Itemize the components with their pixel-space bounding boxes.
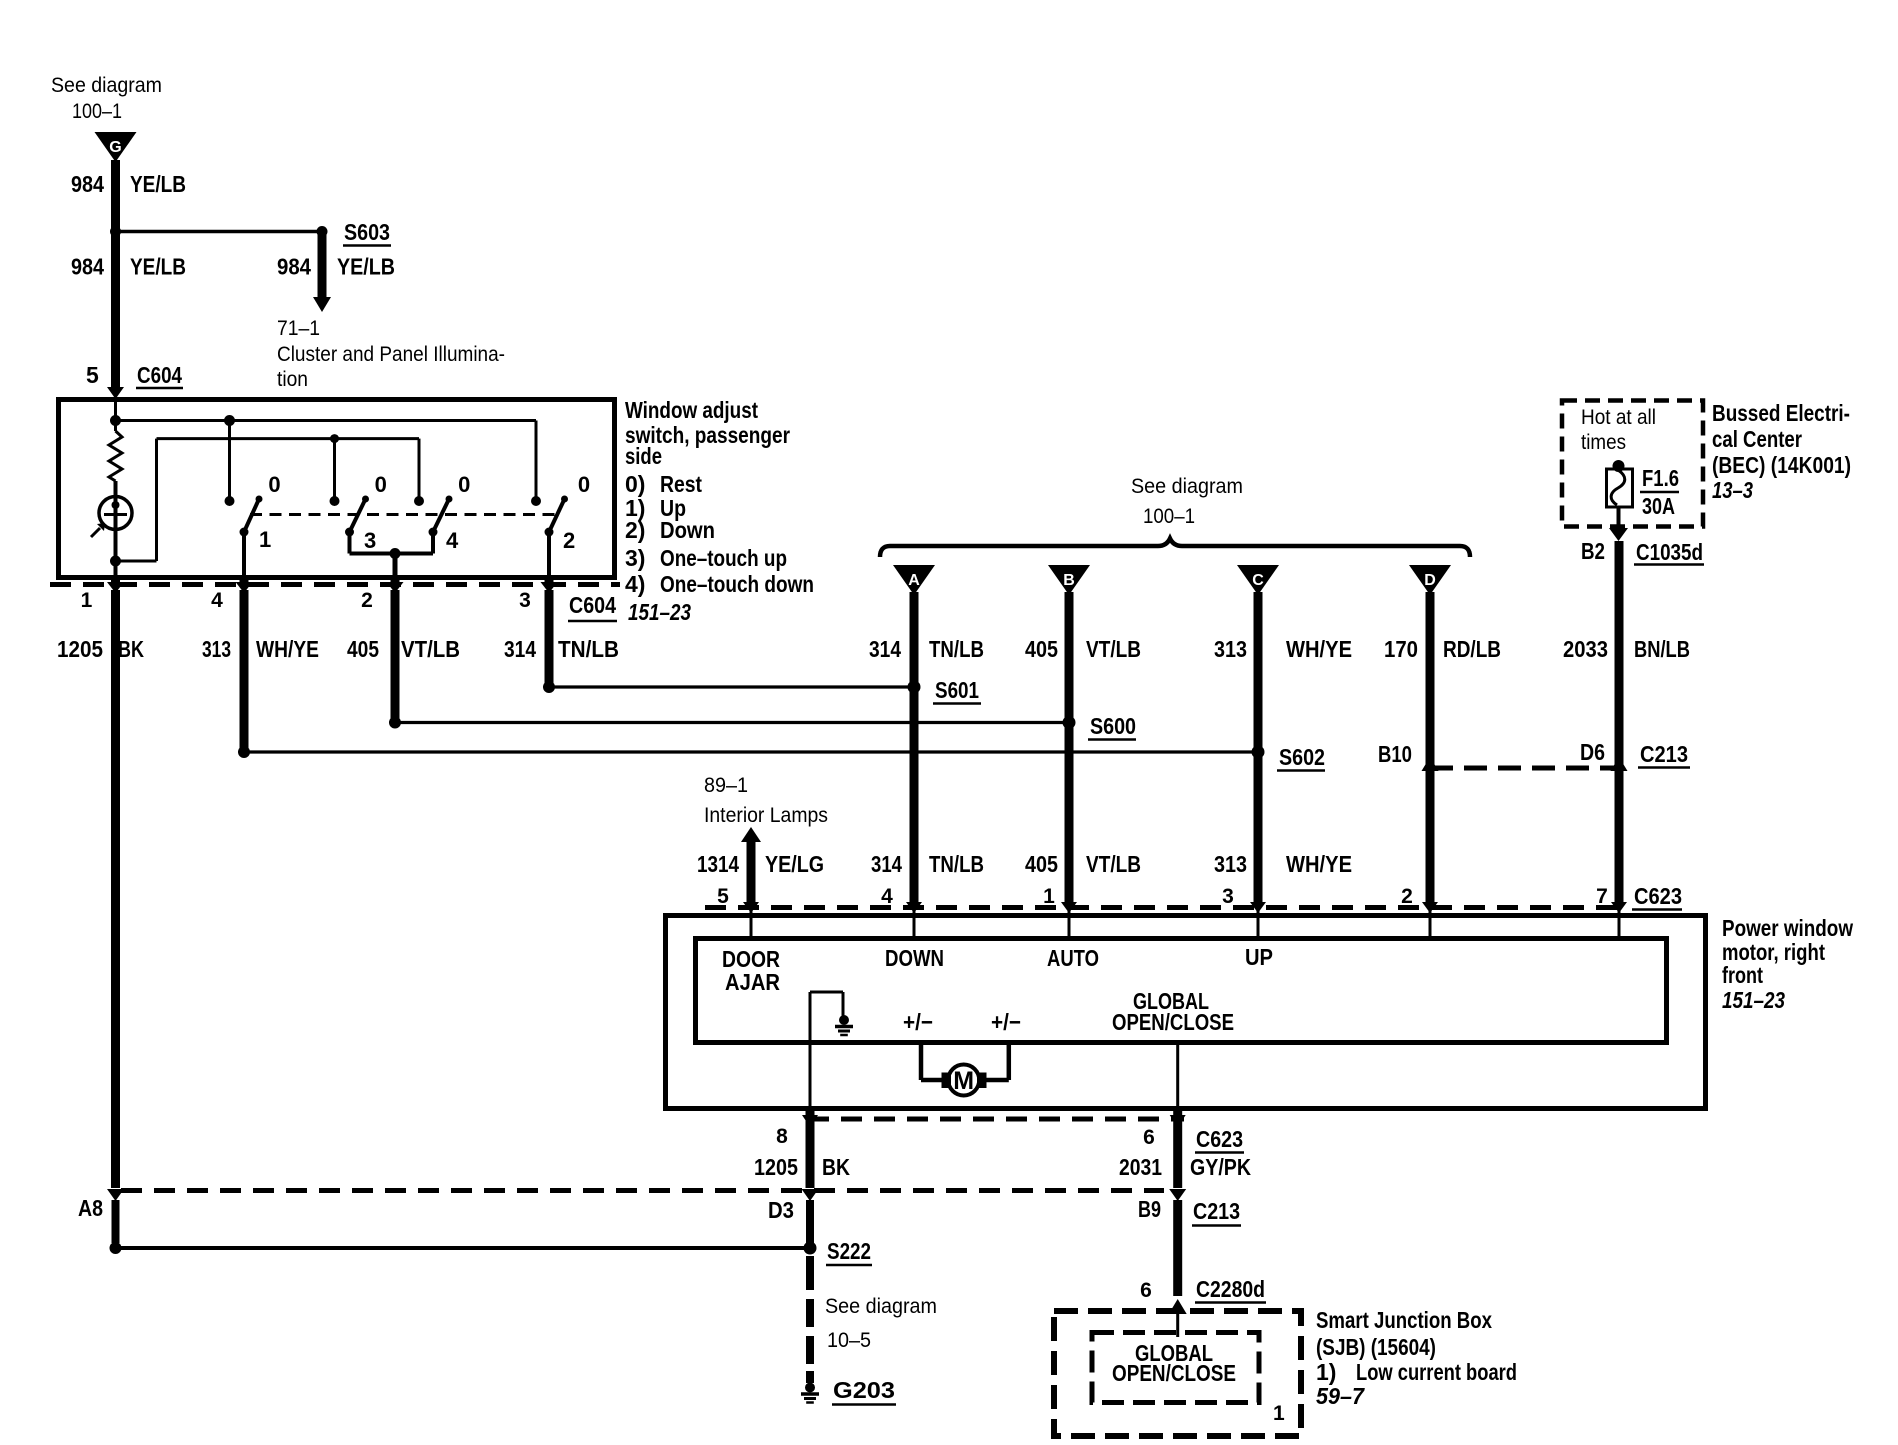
- svg-text:Cluster and Panel Illumina-: Cluster and Panel Illumina-: [277, 343, 505, 366]
- svg-text:GY/PK: GY/PK: [1190, 1154, 1251, 1180]
- svg-text:100–1: 100–1: [72, 100, 122, 123]
- svg-text:VT/LB: VT/LB: [1086, 636, 1141, 662]
- svg-text:OPEN/CLOSE: OPEN/CLOSE: [1112, 1360, 1236, 1386]
- svg-text:1: 1: [1043, 885, 1055, 908]
- svg-text:151–23: 151–23: [1722, 987, 1785, 1013]
- svg-text:4: 4: [881, 885, 893, 908]
- svg-text:2: 2: [563, 528, 575, 553]
- svg-text:2033: 2033: [1563, 636, 1608, 662]
- svg-text:+/−: +/−: [991, 1009, 1021, 1035]
- svg-text:BK: BK: [118, 636, 144, 662]
- svg-text:C604: C604: [569, 592, 616, 618]
- svg-text:405: 405: [1025, 636, 1058, 662]
- svg-text:cal Center: cal Center: [1712, 426, 1802, 452]
- svg-text:C623: C623: [1634, 883, 1682, 909]
- svg-text:A8: A8: [78, 1195, 103, 1221]
- svg-text:984: 984: [71, 171, 104, 197]
- svg-text:13–3: 13–3: [1712, 477, 1753, 503]
- svg-text:C: C: [1252, 572, 1264, 589]
- svg-text:BN/LB: BN/LB: [1634, 636, 1690, 662]
- svg-text:2: 2: [1401, 885, 1413, 908]
- svg-text:YE/LB: YE/LB: [337, 254, 395, 280]
- svg-text:times: times: [1581, 431, 1626, 454]
- svg-text:151–23: 151–23: [628, 599, 691, 625]
- svg-text:OPEN/CLOSE: OPEN/CLOSE: [1112, 1009, 1234, 1035]
- svg-text:1): 1): [1316, 1359, 1336, 1385]
- svg-text:S601: S601: [935, 677, 979, 703]
- svg-text:One–touch up: One–touch up: [660, 545, 787, 571]
- svg-text:5: 5: [86, 362, 99, 388]
- svg-text:71–1: 71–1: [277, 317, 320, 340]
- svg-text:2): 2): [625, 517, 645, 543]
- svg-text:314: 314: [871, 851, 902, 877]
- svg-text:0): 0): [625, 471, 645, 497]
- svg-text:10–5: 10–5: [827, 1329, 871, 1352]
- svg-text:TN/LB: TN/LB: [929, 636, 984, 662]
- svg-text:3): 3): [625, 545, 645, 571]
- svg-text:VT/LB: VT/LB: [1086, 851, 1141, 877]
- svg-text:YE/LG: YE/LG: [765, 851, 824, 877]
- svg-text:6: 6: [1143, 1126, 1155, 1149]
- svg-text:30A: 30A: [1642, 493, 1675, 519]
- svg-text:1: 1: [259, 527, 271, 552]
- svg-text:313: 313: [1214, 851, 1247, 877]
- svg-text:+/−: +/−: [903, 1009, 933, 1035]
- svg-text:See diagram: See diagram: [825, 1295, 937, 1318]
- svg-text:D3: D3: [768, 1197, 794, 1223]
- svg-text:405: 405: [1025, 851, 1058, 877]
- svg-text:Power window: Power window: [1722, 915, 1853, 941]
- svg-text:1205: 1205: [754, 1154, 798, 1180]
- svg-text:RD/LB: RD/LB: [1443, 636, 1501, 662]
- svg-text:Interior Lamps: Interior Lamps: [704, 804, 828, 827]
- svg-text:TN/LB: TN/LB: [558, 636, 619, 662]
- svg-text:C623: C623: [1196, 1126, 1243, 1152]
- svg-text:Window adjust: Window adjust: [625, 397, 758, 423]
- svg-text:YE/LB: YE/LB: [130, 254, 186, 280]
- svg-text:7: 7: [1596, 885, 1608, 908]
- svg-text:3: 3: [1222, 885, 1234, 908]
- svg-text:314: 314: [504, 636, 536, 662]
- svg-text:B: B: [1063, 572, 1075, 589]
- svg-text:100–1: 100–1: [1143, 505, 1195, 528]
- svg-text:59–7: 59–7: [1316, 1383, 1365, 1409]
- svg-text:4: 4: [446, 528, 459, 553]
- svg-text:See diagram: See diagram: [51, 74, 162, 97]
- svg-text:2031: 2031: [1119, 1154, 1162, 1180]
- svg-text:WH/YE: WH/YE: [1286, 851, 1352, 877]
- svg-text:4: 4: [211, 589, 223, 612]
- svg-text:YE/LB: YE/LB: [130, 171, 186, 197]
- svg-text:313: 313: [1214, 636, 1247, 662]
- svg-text:1205: 1205: [57, 636, 103, 662]
- svg-text:405: 405: [347, 636, 379, 662]
- svg-text:G203: G203: [833, 1377, 895, 1403]
- svg-text:984: 984: [277, 254, 311, 280]
- svg-text:2: 2: [361, 589, 373, 612]
- svg-text:A: A: [908, 572, 920, 589]
- svg-text:C213: C213: [1640, 741, 1688, 767]
- svg-text:1314: 1314: [697, 851, 739, 877]
- svg-text:3: 3: [519, 589, 531, 612]
- svg-text:Low current board: Low current board: [1356, 1359, 1517, 1385]
- svg-text:AJAR: AJAR: [725, 969, 780, 995]
- svg-text:S603: S603: [344, 219, 390, 245]
- svg-text:0: 0: [375, 472, 387, 497]
- svg-text:0: 0: [458, 472, 470, 497]
- svg-text:S600: S600: [1090, 713, 1136, 739]
- svg-text:S222: S222: [827, 1238, 871, 1264]
- svg-text:(BEC) (14K001): (BEC) (14K001): [1712, 452, 1851, 478]
- svg-text:170: 170: [1384, 636, 1418, 662]
- svg-text:6: 6: [1140, 1279, 1152, 1302]
- svg-text:0: 0: [578, 472, 590, 497]
- svg-text:D: D: [1424, 572, 1436, 589]
- svg-text:1: 1: [81, 589, 93, 612]
- svg-text:89–1: 89–1: [704, 774, 748, 797]
- svg-text:S602: S602: [1279, 744, 1325, 770]
- svg-text:B9: B9: [1138, 1196, 1161, 1222]
- svg-text:1: 1: [1273, 1402, 1285, 1425]
- svg-text:Hot at all: Hot at all: [1581, 406, 1656, 429]
- svg-text:4): 4): [625, 571, 645, 597]
- svg-text:DOWN: DOWN: [885, 945, 944, 971]
- svg-text:F1.6: F1.6: [1642, 465, 1679, 491]
- svg-text:0: 0: [268, 472, 280, 497]
- svg-text:314: 314: [869, 636, 901, 662]
- svg-text:side: side: [625, 443, 662, 469]
- svg-text:Bussed Electri-: Bussed Electri-: [1712, 400, 1850, 426]
- svg-text:5: 5: [717, 885, 729, 908]
- svg-text:Smart Junction Box: Smart Junction Box: [1316, 1307, 1492, 1333]
- svg-text:WH/YE: WH/YE: [1286, 636, 1352, 662]
- svg-text:WH/YE: WH/YE: [256, 636, 319, 662]
- svg-text:Down: Down: [660, 517, 715, 543]
- svg-text:TN/LB: TN/LB: [929, 851, 984, 877]
- svg-text:front: front: [1722, 962, 1763, 988]
- svg-text:B2: B2: [1581, 538, 1605, 564]
- svg-text:UP: UP: [1245, 944, 1273, 970]
- svg-text:(SJB) (15604): (SJB) (15604): [1316, 1334, 1436, 1360]
- svg-text:313: 313: [202, 636, 231, 662]
- svg-text:C1035d: C1035d: [1636, 539, 1703, 565]
- svg-text:VT/LB: VT/LB: [401, 636, 460, 662]
- svg-text:See diagram: See diagram: [1131, 475, 1243, 498]
- svg-text:8: 8: [776, 1125, 788, 1148]
- svg-text:tion: tion: [277, 368, 308, 391]
- svg-text:C604: C604: [137, 362, 182, 388]
- svg-text:C213: C213: [1193, 1198, 1240, 1224]
- svg-text:3: 3: [364, 528, 376, 553]
- svg-text:B10: B10: [1378, 741, 1412, 767]
- svg-text:One–touch down: One–touch down: [660, 571, 814, 597]
- svg-text:984: 984: [71, 254, 104, 280]
- svg-text:BK: BK: [822, 1154, 850, 1180]
- svg-text:Rest: Rest: [660, 471, 702, 497]
- svg-text:G: G: [109, 139, 121, 156]
- svg-text:D6: D6: [1580, 739, 1605, 765]
- svg-text:AUTO: AUTO: [1047, 945, 1099, 971]
- svg-text:C2280d: C2280d: [1196, 1276, 1265, 1302]
- svg-text:M: M: [953, 1067, 974, 1095]
